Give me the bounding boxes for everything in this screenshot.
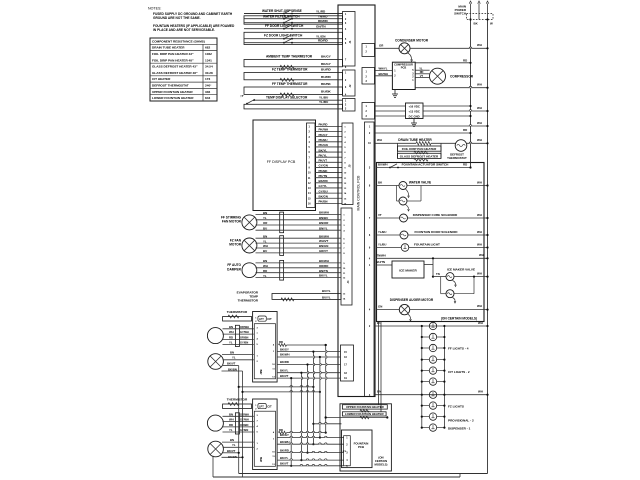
svg-text:CIT: CIT [267, 405, 272, 409]
svg-text:BK/WH: BK/WH [379, 72, 388, 76]
switch water filter (DPST) box [244, 16, 343, 24]
svg-text:FZ TEMP THERMISTOR: FZ TEMP THERMISTOR [272, 67, 308, 71]
svg-text:WH: WH [477, 83, 482, 87]
wire CIT1 fan YL [223, 359, 254, 361]
lamp L7 [429, 391, 436, 398]
svg-text:BK/YL: BK/YL [319, 148, 328, 152]
svg-text:CIT: CIT [267, 317, 272, 321]
wire lights feed top [375, 325, 488, 327]
lamp L9 [422, 416, 430, 418]
svg-text:1062: 1062 [205, 52, 212, 56]
svg-text:YL: YL [263, 216, 267, 220]
svg-text:WH: WH [478, 390, 483, 394]
svg-text:WH/YL: WH/YL [379, 67, 388, 71]
svg-text:IN PLACE AND ARE NOT SERVICEAB: IN PLACE AND ARE NOT SERVICEABLE. [153, 28, 215, 32]
svg-text:WH: WH [477, 242, 482, 246]
wire compressor pcb RD supply [415, 62, 470, 64]
svg-text:THERMISTOR: THERMISTOR [227, 310, 248, 314]
svg-text:BU: BU [263, 249, 267, 253]
svg-text:BN: BN [263, 259, 267, 263]
wire compressor YL [415, 69, 429, 71]
svg-text:BK/GY: BK/GY [280, 347, 289, 351]
svg-text:RD: RD [420, 70, 424, 74]
compressor B2 [430, 68, 446, 84]
svg-text:BU: BU [377, 321, 381, 325]
svg-text:DISPENSER - 1: DISPENSER - 1 [448, 427, 471, 431]
svg-text:CIT LIGHTS - 2: CIT LIGHTS - 2 [448, 370, 470, 374]
svg-text:PK/TN: PK/TN [319, 174, 328, 178]
svg-text:FOUNTAIN ACTUATOR SWITCH: FOUNTAIN ACTUATOR SWITCH [402, 162, 449, 166]
wire FZ door light switch RD/RD [244, 42, 343, 44]
fan motor CIT2 [208, 441, 224, 457]
svg-text:BK/YL: BK/YL [280, 368, 289, 372]
lamp motor CIT1 [207, 328, 223, 344]
wire water filter switch RD/RD [244, 22, 343, 24]
defrost thermostat [455, 140, 467, 152]
LPT module CIT2 [258, 404, 266, 409]
svg-text:PROVISIONAL - 2: PROVISIONAL - 2 [448, 419, 474, 423]
svg-text:OR/WH: OR/WH [240, 412, 249, 416]
svg-text:OR/BN: OR/BN [240, 423, 248, 427]
lamp L1 [429, 322, 436, 329]
lamp L8 [422, 405, 430, 407]
svg-text:AMBIENT TEMP THERMISTOR: AMBIENT TEMP THERMISTOR [266, 54, 313, 58]
svg-text:COMPRESSOR: COMPRESSOR [450, 75, 474, 79]
svg-text:682: 682 [205, 46, 210, 50]
wire fountain heater drop 1 [378, 322, 380, 405]
svg-text:BK/WH: BK/WH [280, 440, 289, 444]
svg-text:PK/BU: PK/BU [319, 138, 328, 142]
wire temp display selector return YL/BU [244, 104, 343, 109]
svg-text:FF DOOR LIGHT SWITCH: FF DOOR LIGHT SWITCH [265, 24, 304, 28]
svg-text:DISPENSER AUGER MOTOR: DISPENSER AUGER MOTOR [390, 298, 434, 302]
wire upper fountain heater feed [313, 423, 341, 425]
wire CIT1 fan BK/BN vertical [222, 370, 243, 372]
svg-text:JPB: JPB [259, 369, 263, 374]
svg-text:WATER VALVE: WATER VALVE [409, 180, 431, 184]
lamp L2 [422, 336, 430, 338]
svg-text:BK/VT: BK/VT [227, 362, 236, 366]
svg-text:YL: YL [263, 239, 267, 243]
wire CIT2 fan BN [222, 441, 254, 443]
svg-text:PCB: PCB [358, 445, 364, 449]
wire compressor RD [415, 73, 429, 75]
svg-text:BK/GY: BK/GY [321, 62, 332, 66]
wire fountain heater return [326, 417, 388, 419]
wire BK/VT jog to mesh [239, 386, 314, 388]
svg-text:BN/OR: BN/OR [319, 221, 329, 225]
wire BK/WH [256, 237, 342, 239]
svg-text:YL/BU: YL/BU [378, 230, 386, 234]
svg-text:FOUNTAIN DOOR SOLENOID: FOUNTAIN DOOR SOLENOID [415, 230, 459, 234]
svg-text:OR/WH: OR/WH [240, 325, 249, 329]
svg-text:GY/BN: GY/BN [240, 341, 248, 345]
wire CIT2 case ground to bottom bus [212, 456, 214, 477]
svg-text:YL/RD: YL/RD [316, 9, 326, 13]
svg-text:GY/BU: GY/BU [319, 189, 328, 193]
wire +13VDC [375, 110, 406, 112]
svg-text:BN: BN [229, 412, 233, 416]
svg-text:FF TEMP THERMISTOR: FF TEMP THERMISTOR [272, 82, 308, 86]
svg-text:WATER FILTER SWITCH: WATER FILTER SWITCH [263, 15, 300, 19]
svg-text:BN: BN [230, 350, 234, 354]
svg-text:BN: BN [377, 390, 381, 394]
svg-text:PK/VT: PK/VT [319, 159, 328, 163]
connector J3 [343, 99, 356, 112]
heater GLASS DEFROST HEATER [398, 153, 442, 158]
FF display PCB pin header [307, 123, 316, 208]
svg-text:CONDENSER MOTOR: CONDENSER MOTOR [395, 38, 429, 42]
wire RD feed [375, 132, 471, 134]
svg-text:OR/RD: OR/RD [319, 264, 328, 268]
svg-text:WH: WH [477, 304, 482, 308]
wire CIT1 lamp GY/BN [223, 344, 254, 346]
svg-text:BN: BN [263, 211, 267, 215]
connector J10 relay out [362, 44, 375, 57]
dispenser enclosure ON CERTAIN MODELS box [377, 163, 485, 322]
wire CIT2 lamp OR/BN [223, 426, 254, 428]
connector J8 DC out [362, 103, 375, 120]
wire compressor VT [415, 76, 429, 78]
svg-text:YL/BU: YL/BU [319, 96, 329, 100]
wire BK/WH [256, 262, 342, 264]
svg-text:JPB: JPB [259, 457, 263, 462]
svg-text:BN/BU: BN/BU [319, 216, 328, 220]
heater UPPER FOUNTAIN HEATER [342, 405, 387, 409]
svg-text:BK/WH: BK/WH [319, 211, 329, 215]
wire compressor return WH [415, 87, 487, 89]
wire WH/VT [256, 242, 342, 244]
svg-text:(ON CERTAIN MODELS): (ON CERTAIN MODELS) [441, 316, 477, 320]
wire CIT1 fan BN [222, 354, 254, 356]
svg-text:BK/RD: BK/RD [319, 179, 328, 183]
svg-text:BN/TN: BN/TN [319, 269, 328, 273]
svg-text:VT: VT [378, 213, 382, 217]
svg-text:YL: YL [419, 66, 423, 70]
svg-text:FOUNTAIN LIGHT: FOUNTAIN LIGHT [414, 242, 440, 246]
lamp L5 [422, 370, 430, 372]
svg-text:GLASS DEFROST HEATER 48″: GLASS DEFROST HEATER 48″ [152, 71, 198, 75]
svg-text:WH: WH [477, 213, 482, 217]
svg-text:BK/YL: BK/YL [319, 274, 328, 278]
FF display PCB U2 [253, 120, 316, 211]
fan motor CIT1 [208, 354, 224, 370]
wire CIT2 fan BK/BN join [222, 456, 243, 458]
inline connector FZ FAN [280, 236, 284, 256]
svg-text:BK/RD: BK/RD [280, 448, 289, 452]
svg-text:BU/YL: BU/YL [322, 289, 331, 293]
svg-text:BU/YL: BU/YL [322, 295, 331, 299]
svg-text:BU/TN: BU/TN [377, 260, 386, 264]
connector J4 [341, 208, 352, 305]
connector J9 compressor out [362, 68, 375, 85]
connector J5 [342, 123, 353, 205]
svg-text:SWITCH: SWITCH [454, 12, 466, 16]
svg-text:BN: BN [230, 438, 234, 442]
lamp L6 [422, 381, 430, 383]
svg-text:RD/RD: RD/RD [318, 39, 329, 43]
svg-text:BU/BK: BU/BK [321, 89, 332, 93]
wire CIT2 lamp OR/WH [223, 415, 254, 417]
wire BK/BN jog to mesh [243, 391, 320, 393]
svg-text:YL: YL [229, 428, 233, 432]
svg-text:BN: BN [229, 325, 233, 329]
svg-text:OR/BN: OR/BN [240, 335, 248, 339]
svg-text:LPT: LPT [259, 318, 264, 321]
svg-text:WH: WH [477, 43, 482, 47]
lamp L3 [422, 347, 430, 349]
svg-text:WH: WH [477, 138, 482, 142]
svg-text:MOTOR: MOTOR [229, 243, 242, 247]
svg-text:RD: RD [229, 335, 233, 339]
svg-text:TEMP DISPLAY SELECTOR: TEMP DISPLAY SELECTOR [266, 96, 308, 100]
wire BK/WH [256, 214, 342, 216]
switch FZ door light (DPST) box [244, 32, 343, 44]
svg-text:BU/RD: BU/RD [321, 67, 332, 71]
svg-text:THERMOSTAT: THERMOSTAT [447, 156, 467, 160]
wire condenser to compressor PCB [407, 53, 412, 61]
svg-text:PK/YL: PK/YL [319, 153, 328, 157]
svg-text:LOWER FOUNTAIN HEATER: LOWER FOUNTAIN HEATER [345, 412, 385, 416]
svg-text:THERMISTOR: THERMISTOR [227, 397, 248, 401]
svg-text:DISPENSER CUBE SOLENOID: DISPENSER CUBE SOLENOID [413, 213, 458, 217]
svg-text:173: 173 [205, 77, 210, 81]
wire GR/VT [256, 252, 342, 254]
svg-text:BU/WH: BU/WH [378, 162, 387, 166]
svg-text:RD: RD [463, 58, 467, 62]
svg-text:BK/BN: BK/BN [228, 455, 237, 459]
wire +16VDC [375, 105, 406, 107]
svg-text:34.54: 34.54 [205, 65, 213, 69]
svg-text:GROUND ARE NOT THE SAME.: GROUND ARE NOT THE SAME. [153, 16, 201, 20]
svg-text:DEFROST THERMOSTAT: DEFROST THERMOSTAT [152, 84, 189, 88]
svg-text:FZ DOOR LIGHT SWITCH: FZ DOOR LIGHT SWITCH [264, 33, 303, 37]
svg-text:BK/GN: BK/GN [319, 194, 328, 198]
svg-text:BK/WH: BK/WH [319, 259, 329, 263]
svg-text:DRAIN TUBE HEATER: DRAIN TUBE HEATER [398, 138, 432, 142]
svg-text:RD: RD [463, 128, 467, 132]
svg-text:BN: BN [263, 234, 267, 238]
wire CIT2 lamp GY/WH [223, 421, 254, 423]
svg-text:336: 336 [205, 90, 210, 94]
wire compressor pcb BK/WH [375, 75, 392, 77]
svg-text:WH: WH [263, 264, 268, 268]
svg-text:BK/VT: BK/VT [280, 462, 289, 466]
svg-text:YL/BU: YL/BU [378, 242, 386, 246]
svg-text:FF LIGHTS - 4: FF LIGHTS - 4 [448, 347, 469, 351]
inline connector CIT2 lamp [235, 413, 239, 434]
svg-text:GR/VT: GR/VT [319, 249, 328, 253]
svg-text:BK/GY: BK/GY [280, 433, 289, 437]
wire fountain heater drop 2 [380, 322, 382, 412]
svg-text:DRAIN TUBE HEATER: DRAIN TUBE HEATER [152, 46, 185, 50]
svg-text:FOIL DRIP PAN HEATER 43″: FOIL DRIP PAN HEATER 43″ [152, 52, 194, 56]
svg-text:YL: YL [229, 341, 233, 345]
wire BK/YL [256, 277, 342, 279]
fountain PCB U5 [342, 430, 373, 468]
svg-text:BN/GN: BN/GN [319, 244, 328, 248]
main control PCB U1 outline [338, 5, 375, 397]
heater LOWER FOUNTAIN HEATER [342, 412, 386, 416]
wire compressor pcb WH/YL [375, 70, 392, 72]
svg-text:WH: WH [477, 121, 482, 125]
svg-text:PK/WH: PK/WH [319, 128, 329, 132]
svg-text:RD: RD [229, 423, 233, 427]
svg-text:PK/BK: PK/BK [319, 169, 329, 173]
svg-text:RD: RD [279, 428, 283, 432]
DC supply box +16VDC +13VDC DCGND [406, 103, 424, 119]
svg-text:DAMPER: DAMPER [227, 267, 242, 271]
svg-text:GY/GN: GY/GN [319, 164, 328, 168]
svg-text:WH: WH [478, 321, 483, 325]
connector J3 right strip [365, 122, 375, 397]
wire CIT2 fan BK/VT join [223, 452, 239, 454]
control board JPB CIT1 [253, 312, 278, 383]
svg-text:PK/RD: PK/RD [319, 123, 328, 127]
svg-text:BK/VT: BK/VT [280, 374, 289, 378]
svg-text:ICE MAKER VALVE: ICE MAKER VALVE [447, 268, 475, 272]
wire temp display selector YL/BU [254, 99, 343, 101]
svg-text:FF DISPLAY PCB: FF DISPLAY PCB [267, 160, 296, 164]
wire BN/TN [256, 272, 342, 274]
ground compressor PCB [394, 90, 396, 95]
wire BN/GN [256, 247, 342, 249]
svg-text:WH: WH [479, 253, 484, 257]
svg-text:GY/YL: GY/YL [319, 184, 328, 188]
svg-text:YL: YL [232, 443, 236, 447]
svg-text:BK/WH: BK/WH [280, 353, 289, 357]
wire bottom return bus WH [239, 473, 488, 475]
svg-text:W: W [490, 22, 493, 26]
wire CIT2 fan YL [223, 446, 254, 448]
svg-text:843: 843 [205, 96, 210, 100]
svg-text:BK/YL: BK/YL [280, 456, 289, 460]
svg-text:RD/RD: RD/RD [318, 19, 329, 23]
svg-text:WH: WH [477, 272, 482, 276]
ground DC box [413, 119, 415, 124]
power bus WH [487, 20, 489, 474]
switch water shut-off sense [283, 13, 285, 15]
svg-text:WH: WH [477, 180, 482, 184]
svg-text:PCB: PCB [401, 66, 407, 70]
svg-text:WH: WH [229, 330, 234, 334]
inline connector CIT1 lamp [235, 325, 239, 346]
svg-text:GN: GN [378, 305, 382, 309]
svg-text:UPPER FOUNTAIN HEATER: UPPER FOUNTAIN HEATER [346, 405, 385, 409]
wire bottom return second [213, 476, 460, 478]
inline connector FF STIRRING [280, 212, 284, 233]
wire BN/OR [256, 224, 342, 226]
svg-text:PK/GN: PK/GN [319, 143, 328, 147]
wire lights feed mid BN [375, 394, 488, 396]
fountain module box ON CERTAIN MODELS [340, 404, 391, 471]
svg-text:+13 VDC: +13 VDC [408, 109, 419, 113]
compressor PCB U3 [392, 62, 415, 89]
svg-text:BK/BK: BK/BK [321, 82, 332, 86]
wire OR/RD [256, 267, 342, 269]
connector J1 [343, 12, 356, 67]
inline connector FF AUTO [280, 260, 284, 280]
svg-text:GY/BN: GY/BN [240, 428, 248, 432]
control board JPB CIT2 [253, 399, 278, 470]
wire BN/YL [256, 229, 342, 231]
svg-text:1341: 1341 [205, 58, 212, 62]
svg-text:UPPER FOUNTAIN HEATER: UPPER FOUNTAIN HEATER [152, 90, 193, 94]
svg-text:TN: TN [436, 272, 440, 276]
connector J2 [343, 70, 356, 96]
svg-text:GLASS DEFROST HEATER: GLASS DEFROST HEATER [400, 154, 439, 158]
vertical routing wires to fountain/CIT2 [325, 345, 327, 433]
svg-text:BK/WH: BK/WH [319, 234, 329, 238]
LPT module CIT1 [258, 316, 266, 321]
svg-text:RD: RD [463, 162, 467, 166]
svg-text:LPT: LPT [259, 406, 264, 409]
svg-text:TN/WH: TN/WH [377, 253, 386, 257]
svg-text:GY/WH: GY/WH [240, 330, 249, 334]
svg-text:THERMISTOR: THERMISTOR [238, 298, 259, 302]
wire CIT1 lamp OR/WH [223, 328, 254, 330]
svg-text:ICE MAKER: ICE MAKER [399, 269, 417, 273]
svg-text:YL: YL [232, 356, 236, 360]
svg-text:VT: VT [420, 74, 424, 78]
svg-text:WATER SHUT-OFF SENSE: WATER SHUT-OFF SENSE [262, 9, 302, 13]
wire BN/BU [256, 219, 342, 221]
wire CIT2 lamp GY/BN [223, 431, 254, 433]
svg-text:GLASS DEFROST HEATER 43″: GLASS DEFROST HEATER 43″ [152, 65, 198, 69]
svg-text:GY/WH: GY/WH [240, 418, 249, 422]
svg-text:WH: WH [263, 244, 268, 248]
svg-text:PK/BN: PK/BN [319, 200, 328, 204]
svg-text:CIT HEATER: CIT HEATER [152, 77, 171, 81]
svg-text:240°: 240° [205, 84, 212, 88]
svg-text:BK/GY: BK/GY [321, 54, 332, 58]
svg-text:DC GND: DC GND [409, 114, 420, 118]
wire CIT1 fan BK/VT vertical [223, 365, 239, 367]
svg-text:BN/YL: BN/YL [319, 226, 328, 230]
heater FOIL DRIP PAN HEATER [397, 143, 399, 157]
svg-text:30.28: 30.28 [205, 71, 213, 75]
ice maker valve solenoids [432, 258, 434, 276]
wire CIT1 lamp GY/WH [223, 333, 254, 335]
svg-text:LOWER FOUNTAIN HEATER: LOWER FOUNTAIN HEATER [152, 96, 194, 100]
svg-text:WH: WH [477, 106, 482, 110]
svg-text:FOIL DRIP PAN HEATER 48″: FOIL DRIP PAN HEATER 48″ [152, 58, 194, 62]
svg-text:FAN MOTOR: FAN MOTOR [222, 220, 242, 224]
wire WH feed [375, 125, 488, 127]
component resistance table [150, 38, 217, 101]
svg-text:PK/GY: PK/GY [319, 133, 328, 137]
svg-text:WH: WH [477, 230, 482, 234]
lights ladder rails [421, 326, 423, 428]
lamp motor CIT2 [207, 415, 223, 431]
power bus BK [470, 20, 472, 168]
svg-text:MODELS): MODELS) [375, 463, 388, 467]
svg-text:BU/RD: BU/RD [321, 75, 332, 79]
svg-text:RD: RD [279, 340, 283, 344]
svg-text:FZ LIGHTS: FZ LIGHTS [448, 405, 464, 409]
wire CIT1 lamp OR/BN [223, 338, 254, 340]
svg-text:FOIL DRIP PAN HEATER: FOIL DRIP PAN HEATER [402, 147, 437, 151]
svg-text:NOTES:: NOTES: [148, 7, 161, 11]
lamp L4 [422, 359, 430, 361]
svg-text:YL: YL [263, 274, 267, 278]
svg-text:YL/BU: YL/BU [319, 100, 329, 104]
wire DC GND [375, 115, 406, 117]
svg-text:MAIN CONTROL PCB: MAIN CONTROL PCB [357, 175, 361, 211]
svg-text:COMPONENT RESISTANCE (OHMS): COMPONENT RESISTANCE (OHMS) [152, 39, 205, 43]
svg-text:BU: BU [263, 226, 267, 230]
connector J7 [341, 345, 354, 381]
